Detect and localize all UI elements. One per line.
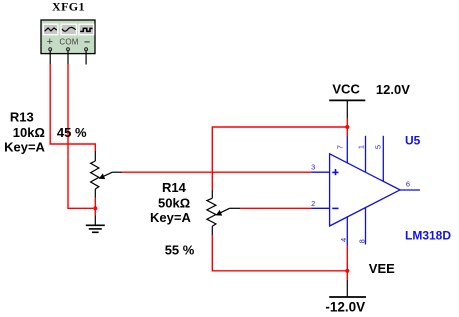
- XFG1 terminal -: [85, 48, 88, 65]
- wire R13 bottom to junction: [94, 198, 96, 216]
- R13 wiper arrow: [101, 172, 113, 178]
- svg-text:XFG1: XFG1: [52, 0, 85, 14]
- pin 4: [339, 217, 348, 246]
- VEE power symbol: [329, 261, 395, 297]
- ground: [86, 216, 105, 233]
- pin 8: [358, 208, 367, 245]
- svg-text:LM318D: LM318D: [405, 229, 451, 243]
- svg-text:VCC: VCC: [332, 82, 360, 97]
- svg-text:R14: R14: [162, 180, 187, 195]
- svg-text:VEE: VEE: [369, 261, 395, 276]
- wire XFG1 + to R13 top: [50, 64, 95, 151]
- potentiometer R14: [207, 190, 240, 235]
- svg-text:6: 6: [406, 180, 410, 189]
- svg-text:3: 3: [311, 162, 315, 171]
- wire VCC node to R14: [212, 127, 347, 190]
- svg-text:Key=A: Key=A: [150, 210, 191, 225]
- svg-text:55 %: 55 %: [165, 242, 195, 257]
- pin 2: [311, 199, 329, 208]
- svg-text:50kΩ: 50kΩ: [158, 195, 190, 210]
- node junction VCC: [345, 125, 349, 129]
- wire VCC node to R14 top: [346, 118, 348, 136]
- XFG1 terminal +: [49, 48, 52, 64]
- svg-text:Key=A: Key=A: [4, 139, 45, 154]
- XFG1 terminal COM: [67, 48, 70, 64]
- R14 wiper arrow: [218, 208, 230, 214]
- svg-text:COM: COM: [59, 37, 78, 46]
- op-amp U1 triangle: [330, 154, 400, 226]
- svg-text:7: 7: [336, 145, 345, 149]
- node junction at R13 bottom: [93, 206, 97, 210]
- svg-text:1: 1: [356, 145, 365, 149]
- svg-text:12.0V: 12.0V: [376, 82, 410, 97]
- pin 6 output: [400, 180, 420, 190]
- wire XFG1 COM to ground node: [68, 64, 93, 208]
- pin 7: [336, 136, 348, 163]
- svg-text:45 %: 45 %: [57, 125, 87, 140]
- function generator XFG1: [41, 0, 95, 54]
- pin 3: [311, 162, 329, 172]
- svg-text:-12.0V: -12.0V: [325, 300, 365, 315]
- svg-text:10kΩ: 10kΩ: [13, 125, 45, 140]
- wire R13 wiper to op-amp pin 3: [122, 171, 312, 173]
- svg-text:+: +: [47, 36, 53, 48]
- pin 1: [356, 136, 365, 172]
- op-amp - input mark: [332, 207, 338, 209]
- svg-text:8: 8: [358, 239, 367, 243]
- wire R14 bottom to VEE node: [212, 235, 347, 271]
- svg-text:R13: R13: [10, 110, 34, 125]
- svg-text:U5: U5: [405, 133, 421, 147]
- node junction VEE: [345, 269, 349, 273]
- wire R14 wiper to op-amp pin 2: [240, 207, 312, 209]
- svg-text:2: 2: [311, 199, 315, 208]
- svg-text:5: 5: [373, 145, 382, 149]
- potentiometer R13: [91, 151, 122, 198]
- svg-text:4: 4: [339, 238, 348, 242]
- wire pin4 to VEE node: [346, 246, 348, 280]
- pin 5: [373, 136, 383, 182]
- VCC power symbol: [329, 82, 365, 119]
- op-amp + input mark: [332, 169, 338, 175]
